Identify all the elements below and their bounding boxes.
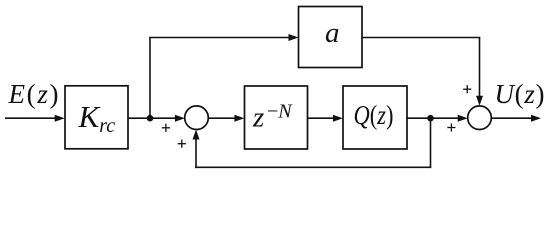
summing junction S1: [185, 106, 209, 130]
wire K_rc to summing junction S1: [128, 117, 177, 119]
wire to block a: [149, 37, 290, 39]
output arrow: [491, 117, 533, 119]
plus sign at S1 bottom: [178, 140, 186, 148]
plus sign at S2 left: [447, 123, 455, 131]
svg-text:Q(z): Q(z): [354, 100, 394, 130]
feedback wire down from node B: [430, 118, 432, 167]
block K_rc: [65, 86, 128, 149]
svg-text:a: a: [325, 17, 340, 49]
wire Q(z) to summing junction S2: [407, 117, 460, 119]
summing junction S2: [468, 106, 492, 130]
svg-text:U(z): U(z): [495, 79, 545, 109]
wire z^-N to Q(z): [308, 117, 335, 119]
feedback wire horizontal: [195, 166, 431, 168]
block z^-N: [245, 86, 308, 149]
svg-text:E(z): E(z): [8, 79, 59, 109]
svg-text:−N: −N: [267, 100, 293, 122]
branch wire up from node A: [149, 38, 151, 119]
block Q(z): [343, 86, 407, 149]
wire a to S2 vertical: [479, 38, 481, 98]
node B (branch dot after Q(z)): [427, 115, 434, 122]
plus sign at S1 left: [162, 124, 170, 132]
wire S1 to z^-N: [208, 117, 236, 119]
svg-text:z: z: [252, 102, 264, 134]
feedback wire up into S1: [195, 138, 197, 169]
input arrow into K_rc: [5, 117, 57, 119]
block a: [299, 7, 363, 68]
wire a to S2 horizontal: [362, 37, 480, 39]
node A (branch dot after K_rc): [147, 115, 154, 122]
plus sign at S2 top: [463, 85, 471, 93]
